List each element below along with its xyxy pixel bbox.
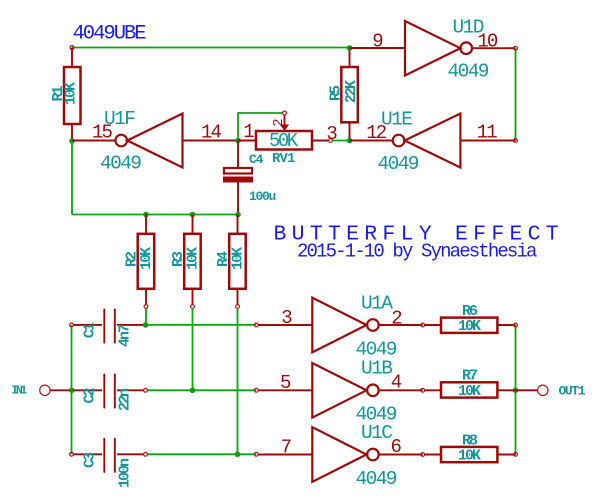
svg-text:100u: 100u [249,189,276,204]
svg-text:2: 2 [271,118,287,126]
junction [143,212,149,218]
wire [332,140,349,142]
junction [235,212,241,218]
junction [235,452,241,458]
wire pot top link [238,113,283,141]
capacitor C2 [73,374,147,411]
svg-text:RV1: RV1 [272,151,295,167]
svg-text:10K: 10K [230,247,247,270]
svg-text:U1D: U1D [453,17,484,39]
svg-text:10K: 10K [63,82,80,105]
junction [347,45,353,51]
resistor R2 [124,215,156,309]
svg-text:14: 14 [201,122,222,144]
resistor R5 [328,48,361,141]
resistor R7 [421,368,516,401]
svg-text:4049: 4049 [448,61,489,83]
junction [513,388,519,394]
svg-text:U1F: U1F [104,108,135,130]
wire end marker [254,452,258,456]
svg-text:6: 6 [391,436,402,458]
svg-text:2: 2 [391,308,402,330]
svg-text:4: 4 [391,372,402,394]
wire row3 [146,324,257,326]
wire end marker [514,452,518,456]
wiper pin 2 [283,111,287,115]
capacitor C4 [223,141,276,215]
connector OUT1 [516,384,586,399]
svg-text:3: 3 [326,123,337,145]
wire end marker [254,388,258,392]
wire row7 [147,453,256,455]
svg-text:10K: 10K [458,448,481,465]
wire end marker [514,139,518,143]
junction [190,212,196,218]
junction [190,388,196,394]
svg-text:4049: 4049 [100,153,141,175]
inverter gate U1B [258,358,423,426]
svg-text:R7: R7 [462,368,477,385]
resistor R4 [215,215,247,309]
svg-text:1: 1 [243,121,254,143]
svg-text:R5: R5 [328,85,345,101]
svg-text:10K: 10K [458,383,481,400]
svg-text:50K: 50K [269,130,299,152]
svg-text:11: 11 [477,122,498,144]
svg-text:C1: C1 [81,322,98,338]
resistor R8 [421,433,516,465]
resistor R1 [50,48,81,142]
svg-text:10K: 10K [138,247,155,270]
resistor R6 [421,303,516,335]
inverter gate U1A [258,293,423,361]
wire output rail [515,325,517,454]
wire cap left vertical [71,325,73,454]
svg-text:C3: C3 [81,452,98,468]
svg-text:9: 9 [372,31,383,53]
svg-text:7: 7 [281,436,291,458]
svg-text:2015-1-10 by Synaesthesia: 2015-1-10 by Synaesthesia [297,241,537,263]
wire left vertical [71,141,73,215]
svg-text:4049: 4049 [378,153,419,175]
wire mid rail [72,214,238,216]
capacitor C1 [70,309,144,347]
svg-text:10K: 10K [185,247,202,270]
svg-text:4049UBE: 4049UBE [73,23,147,46]
svg-text:U1E: U1E [381,109,412,131]
inverter gate U1C [258,422,423,490]
svg-text:U1A: U1A [361,293,393,315]
wire end marker [70,46,74,50]
wire [237,308,239,454]
svg-text:100n: 100n [117,458,134,488]
svg-text:4n7: 4n7 [117,325,134,347]
inverter gate U1D [350,17,516,83]
junction [235,138,241,144]
svg-text:4049: 4049 [356,468,397,490]
wire right rail [515,48,517,140]
junction [143,322,149,328]
svg-text:C2: C2 [81,387,98,403]
svg-text:U1C: U1C [361,422,392,444]
capacitor C3 [70,439,148,488]
junction [347,138,353,144]
svg-text:22K: 22K [343,80,360,103]
potentiometer RV1 [238,111,337,167]
wire [192,308,194,390]
svg-text:22n: 22n [117,388,134,411]
svg-text:C4: C4 [249,152,264,167]
wire row5 [147,389,256,391]
svg-text:3: 3 [281,307,292,329]
wire end marker [254,323,258,327]
wire end marker [514,46,518,50]
junction [69,388,75,394]
svg-text:U1B: U1B [361,358,392,380]
connector IN1 [12,384,71,397]
wire top rail [72,47,350,49]
svg-text:OUT1: OUT1 [559,384,586,399]
wire [145,308,147,325]
wire end marker [514,323,518,327]
svg-text:5: 5 [280,372,291,394]
inverter gate U1F [72,108,238,175]
svg-text:10K: 10K [458,318,481,335]
junction [69,138,75,144]
resistor R3 [170,215,202,309]
inverter gate U1E [350,109,516,176]
